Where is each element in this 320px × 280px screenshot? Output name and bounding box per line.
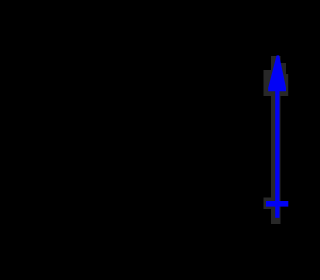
blue arrow shaft bbox=[275, 88, 279, 218]
plus crossbar (positive charge symbol) bbox=[266, 201, 288, 207]
artifact halo around plus crossbar bbox=[264, 198, 273, 210]
artifact halo right of arrowhead bbox=[281, 63, 286, 74]
blue arrowhead bbox=[268, 55, 286, 91]
artifact halo column behind arrow shaft bbox=[271, 56, 281, 224]
artifact halo left of arrowhead bbox=[264, 70, 273, 96]
